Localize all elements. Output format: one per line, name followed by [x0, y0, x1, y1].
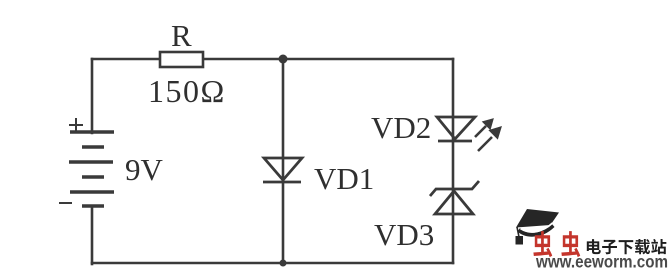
svg-text:www.eeworm.com: www.eeworm.com — [535, 252, 668, 269]
LED VD2 light arrow 1 — [475, 120, 492, 137]
node junction bottom — [280, 260, 287, 267]
battery minus sign — [59, 202, 72, 204]
node junction top — [279, 55, 288, 64]
diode VD1 — [263, 158, 302, 182]
logo tassel knob — [516, 236, 524, 245]
logo tassel cord — [517, 227, 519, 237]
resistor R 150ohm body — [160, 52, 203, 67]
wire top-left segment — [92, 58, 160, 61]
wire left vertical lower — [91, 206, 94, 264]
battery plus sign — [69, 118, 83, 132]
wire middle vertical — [282, 59, 285, 263]
wire top-right segment — [203, 58, 453, 61]
label VD3 — [374, 217, 434, 253]
label VD1 — [314, 161, 374, 197]
wire left vertical upper — [91, 59, 94, 133]
logo graduation cap white rim — [521, 223, 553, 232]
zener diode VD3 — [430, 181, 479, 214]
logo graduation cap base — [518, 224, 555, 237]
label R — [171, 18, 192, 54]
battery B 9V plates — [69, 132, 114, 206]
logo text chong-chong (red) — [533, 231, 580, 257]
wire right vertical — [452, 59, 455, 263]
LED VD2 — [437, 117, 475, 141]
logo text dianzi-xiazai-zhan (black) — [587, 239, 667, 254]
label 150 ohm — [148, 73, 226, 110]
logo graduation cap board — [516, 209, 559, 228]
wire bottom segment — [92, 262, 453, 265]
label VD2 — [371, 110, 431, 146]
label 9V — [125, 152, 163, 188]
LED VD2 light arrow 2 — [478, 128, 500, 151]
